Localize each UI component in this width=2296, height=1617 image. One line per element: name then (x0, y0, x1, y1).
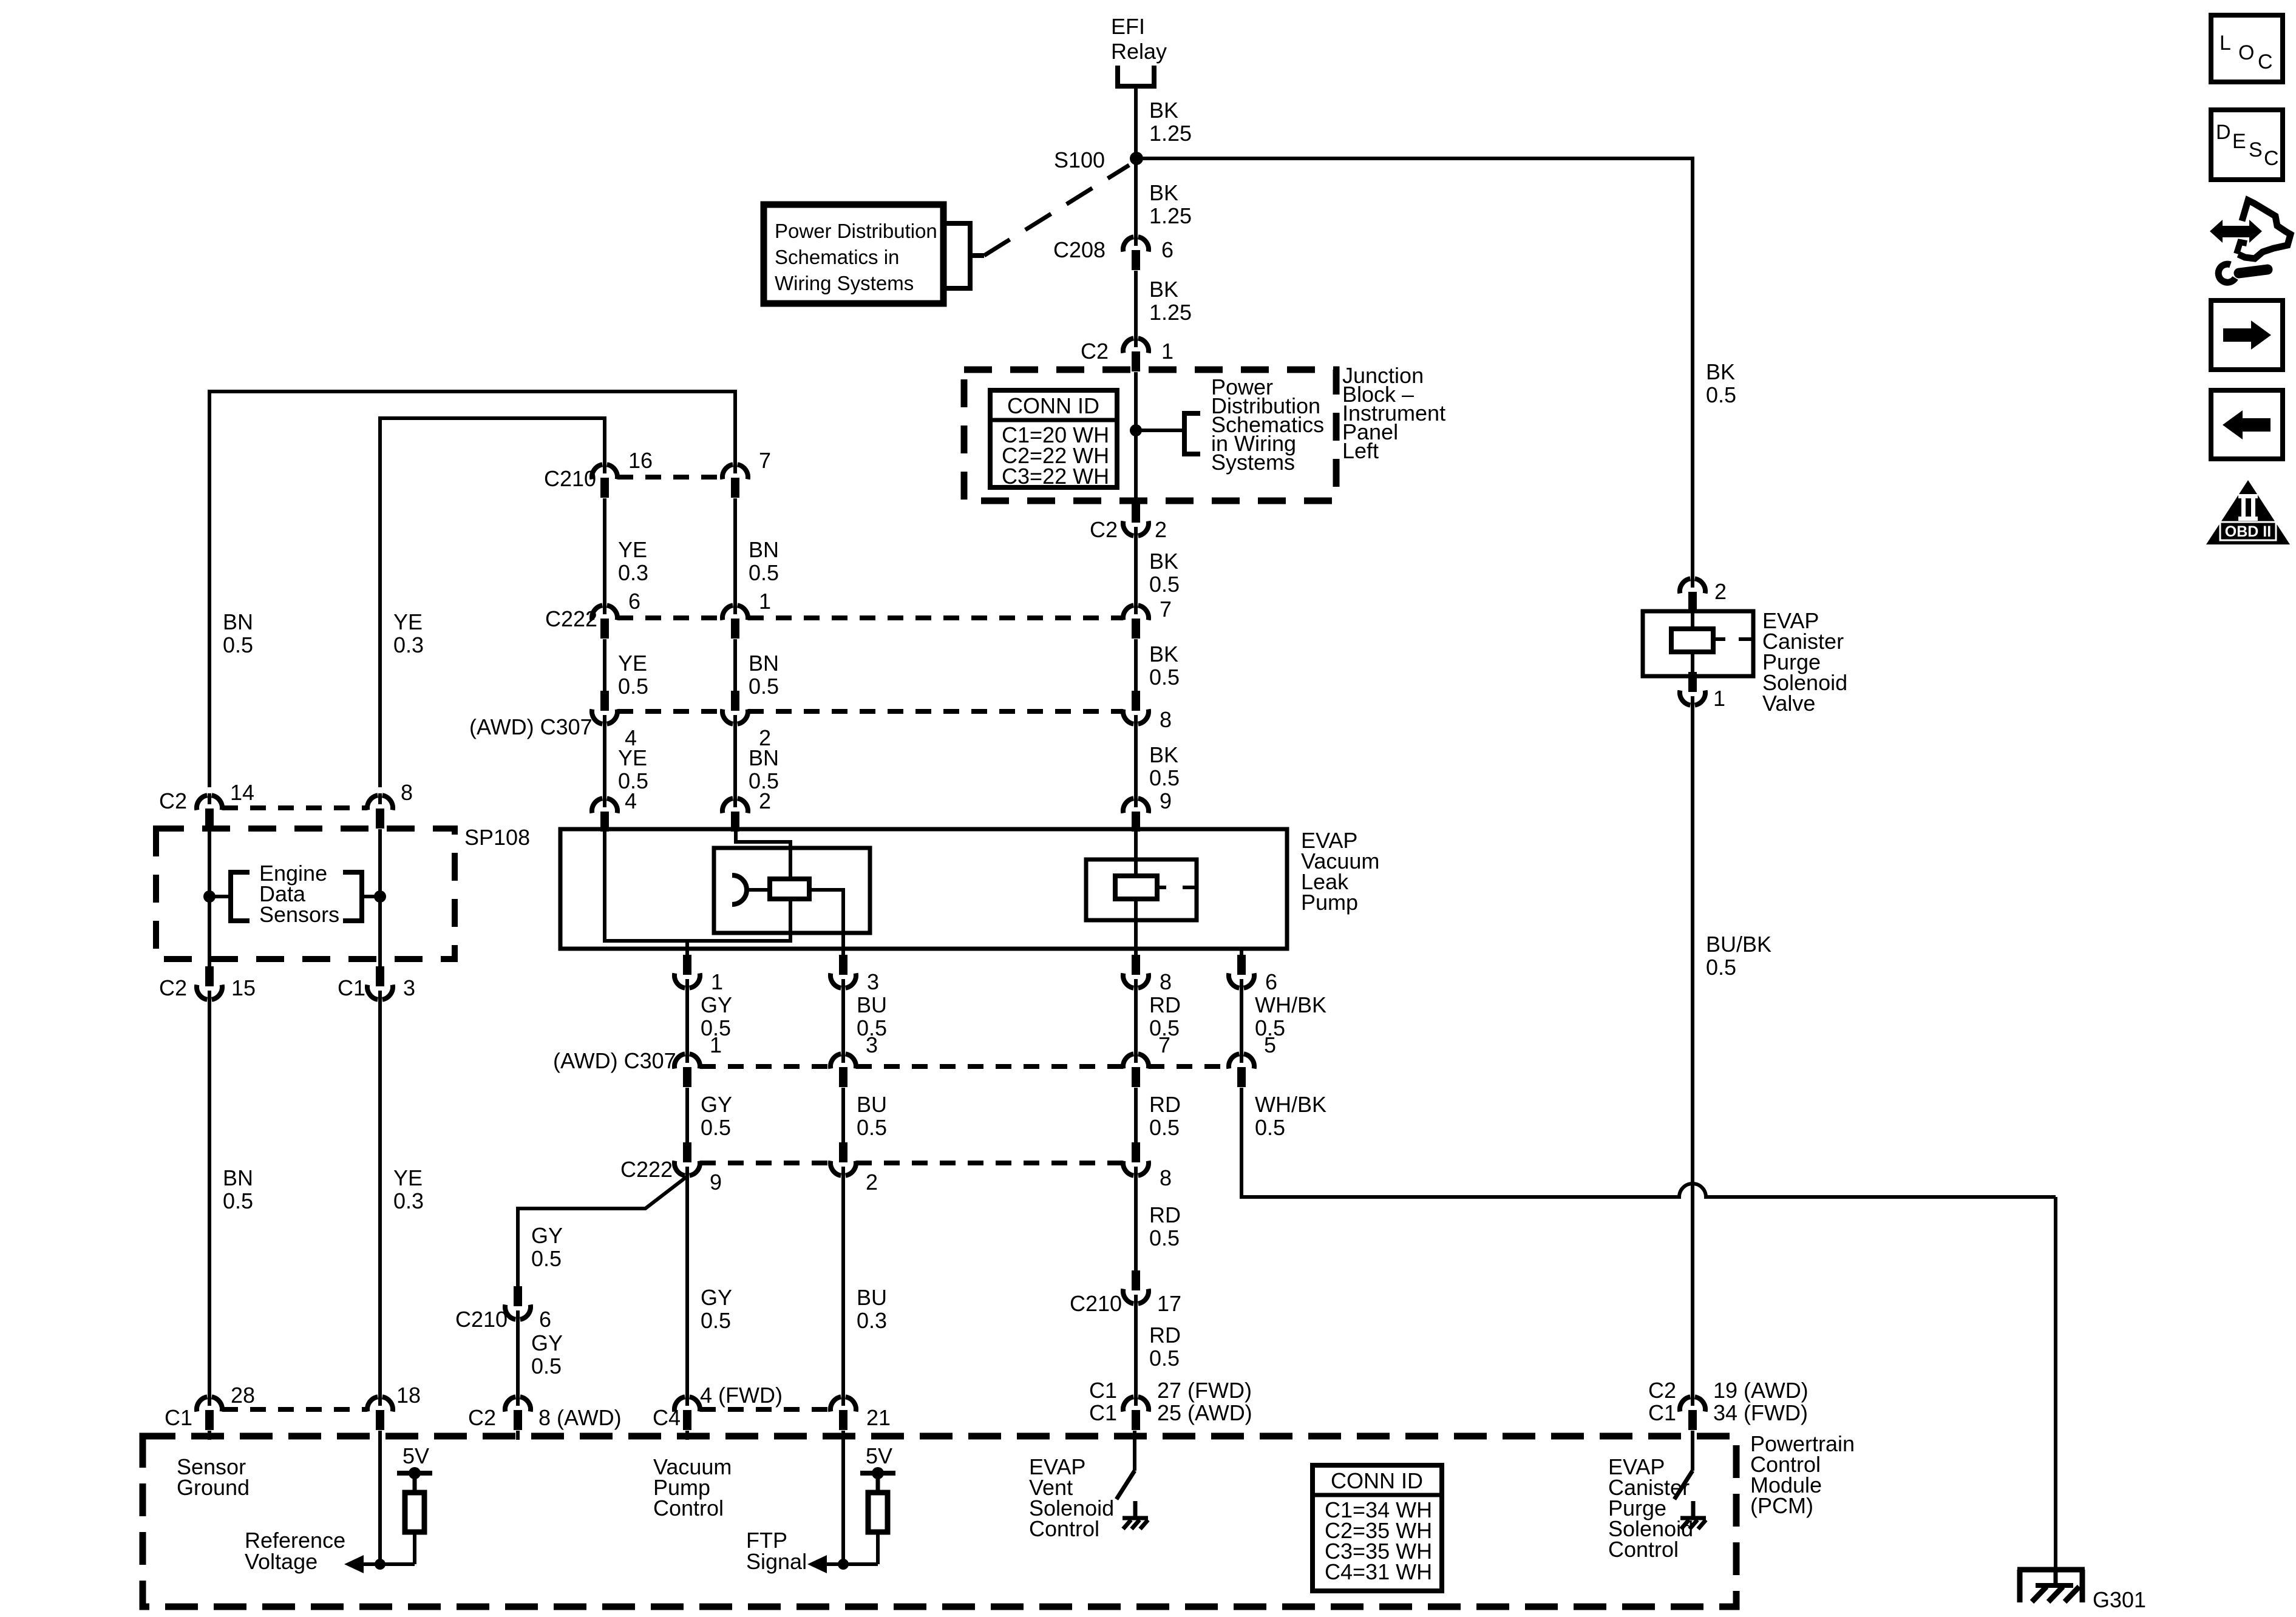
svg-text:1: 1 (1161, 339, 1173, 364)
connector C210 pin 17 (1123, 1270, 1149, 1306)
svg-text:5V: 5V (402, 1443, 429, 1468)
note Power Distribution Schematics in Wiring Systems (junction block) (1211, 375, 1324, 475)
svg-text:0.5: 0.5 (223, 632, 253, 657)
EFI Relay label (1111, 14, 1167, 64)
svg-text:6: 6 (628, 589, 640, 614)
wire YE loop (380, 418, 605, 787)
svg-text:0.5: 0.5 (701, 1115, 731, 1140)
wire label BK 0.5 (7-8) (1149, 642, 1180, 690)
purge solenoid internal ground (1680, 1501, 1706, 1529)
connector C4 pin 4 (FWD) (674, 1395, 700, 1430)
svg-text:D: D (2216, 121, 2231, 144)
wire pin8 through sensor box (378, 829, 382, 966)
wire label BK 0.5 (right) (1706, 359, 1736, 407)
svg-text:1.25: 1.25 (1149, 121, 1192, 146)
FTP arrow line (826, 1562, 878, 1566)
FTP Signal label (746, 1528, 807, 1574)
svg-text:0.3: 0.3 (393, 1188, 424, 1213)
wire BN loop (S100 area to left column) (209, 392, 735, 787)
svg-text:G301: G301 (2093, 1587, 2146, 1612)
wire label WH/BK 0.5 (C307-turn) (1255, 1092, 1326, 1140)
svg-text:C210: C210 (1070, 1291, 1122, 1316)
wire C2/2 to pin7 (1134, 536, 1138, 605)
PCM label (1750, 1431, 1855, 1518)
connector pin 8 (engine data) (367, 793, 393, 829)
repair action hand icon (2210, 200, 2291, 282)
connector C1 pin 28 (197, 1395, 222, 1430)
EVAP Vent Solenoid Control label (1029, 1454, 1114, 1541)
svg-text:6: 6 (1265, 969, 1277, 994)
svg-text:C2: C2 (1081, 339, 1109, 364)
svg-text:8: 8 (1160, 707, 1172, 732)
svg-text:C1: C1 (1648, 1400, 1676, 1425)
wire label RD 0.5 (C307-C222) (1149, 1092, 1181, 1140)
connector C210 pin 6 (505, 1286, 531, 1321)
junction block internal splice dot (1130, 424, 1142, 436)
svg-text:0.5: 0.5 (1706, 382, 1736, 407)
junction block bracket to note (1136, 411, 1200, 456)
Power Distribution Schematics note box (764, 205, 943, 303)
wire C307/2 to pump pin2 (733, 724, 737, 797)
connector pin 6 EVAP pump bottom (1229, 955, 1254, 990)
pump right heater box (1086, 859, 1197, 920)
pump bottom stub pin 8 (1134, 949, 1138, 960)
C307 row dashed link (617, 709, 722, 714)
svg-text:Systems: Systems (1211, 450, 1295, 475)
svg-text:15: 15 (231, 975, 256, 1000)
svg-text:BU: BU (857, 992, 887, 1017)
svg-text:WH/BK: WH/BK (1255, 992, 1326, 1017)
wire label BK 1.25 (S100-C208) (1149, 180, 1192, 228)
connector C222 pin 8 (1123, 1142, 1149, 1178)
svg-text:YE: YE (393, 1165, 423, 1190)
dashed pointer line to S100 (984, 165, 1129, 256)
EVAP Vacuum Leak Pump box (560, 829, 1287, 949)
connector pin 21 (830, 1395, 856, 1430)
svg-text:8: 8 (401, 780, 413, 805)
svg-text:C: C (2258, 50, 2273, 73)
svg-text:1: 1 (1713, 686, 1725, 711)
wire resistor to junction (reference) (413, 1532, 416, 1564)
connector C307 pin 3 (AWD lower) (830, 1052, 856, 1087)
svg-text:GY: GY (701, 1285, 732, 1310)
C210 row dashed link (617, 475, 722, 480)
svg-text:S: S (2249, 138, 2263, 161)
connector C222 pin 1 (722, 603, 748, 639)
svg-text:14: 14 (230, 780, 254, 805)
svg-text:6: 6 (539, 1307, 551, 1332)
svg-text:GY: GY (531, 1223, 563, 1248)
svg-text:Ground: Ground (177, 1475, 250, 1500)
wire label BN 0.5 (C210-C222) (749, 537, 779, 585)
splice dot left (engine data) (203, 890, 216, 903)
wire pin18 to reference junction (378, 1431, 382, 1564)
connector C2 pin 2 junction block exit (1123, 503, 1149, 538)
svg-text:BK: BK (1706, 359, 1735, 384)
svg-text:0.5: 0.5 (1255, 1115, 1285, 1140)
wire C307/5 to ground run (1240, 1088, 1243, 1199)
wire pin7 to pin8 (1134, 639, 1138, 692)
svg-text:BN: BN (223, 1165, 253, 1190)
ground run vertical to G301 (2054, 1197, 2057, 1571)
heater contact stubs (1157, 886, 1197, 889)
svg-text:C2: C2 (468, 1405, 496, 1430)
svg-text:Control: Control (1029, 1516, 1099, 1541)
FTP junction dot (838, 1559, 849, 1570)
svg-text:0.3: 0.3 (393, 632, 424, 657)
svg-text:16: 16 (628, 448, 653, 473)
svg-text:BK: BK (1149, 180, 1178, 205)
wire resistor to junction (FTP) (876, 1532, 880, 1564)
wire pump to C307 row (1134, 988, 1138, 1054)
connector C2 pin 15 (197, 966, 222, 1002)
wire label GY 0.5 (pump-C307) (701, 992, 732, 1040)
connector pin 9 EVAP pump (1123, 796, 1149, 832)
back arrow icon box (2211, 390, 2283, 459)
wire label BU 0.5 (C307-C222) (857, 1092, 887, 1140)
wire label BN 0.5 (lower left) (223, 1165, 253, 1213)
svg-text:YE: YE (618, 745, 647, 770)
C1/28-18 dashed link (222, 1407, 367, 1412)
connector C307 pin 2 (AWD) (722, 691, 748, 726)
svg-text:2: 2 (759, 788, 771, 813)
wire label BK 0.5 (C2/2 - 7) (1149, 549, 1180, 597)
svg-text:YE: YE (618, 537, 647, 562)
ground G301 symbol (2017, 1570, 2085, 1602)
connector C208 pin 6 (1123, 235, 1149, 270)
pump motor lead (747, 888, 770, 892)
reference voltage arrow line (362, 1562, 415, 1566)
wire label RD 0.5 (pump-C307) (1149, 992, 1181, 1040)
vent solenoid internal ground (1123, 1501, 1148, 1529)
svg-text:34 (FWD): 34 (FWD) (1713, 1400, 1808, 1425)
connector pin 2 purge valve (1680, 577, 1705, 612)
connector C2 pin 19 / C1 pin 34 (1680, 1395, 1705, 1430)
svg-text:5V: 5V (866, 1443, 892, 1468)
svg-text:O: O (2238, 41, 2254, 64)
wire label RD 0.5 (C210-PCM) (1149, 1323, 1181, 1371)
svg-text:GY: GY (701, 1092, 732, 1117)
svg-text:3: 3 (867, 969, 879, 994)
LOC icon box (2211, 15, 2283, 82)
svg-text:0.5: 0.5 (223, 1188, 253, 1213)
pump bottom stub pin 3 (841, 949, 845, 960)
wire label GY 0.5 (branch upper) (531, 1223, 563, 1271)
svg-text:2: 2 (1155, 517, 1167, 542)
svg-text:GY: GY (531, 1331, 563, 1355)
wire C307/4 to pump pin4 (603, 724, 606, 797)
svg-text:7: 7 (1158, 1032, 1170, 1057)
wire label YE 0.3 (lower left) (393, 1165, 424, 1213)
connector C2 pin 8 (AWD) (505, 1395, 531, 1430)
svg-text:SP108: SP108 (464, 825, 530, 850)
svg-text:2: 2 (866, 1170, 878, 1195)
connector pin 1 purge valve (1680, 672, 1705, 707)
svg-text:CONN ID: CONN ID (1331, 1468, 1423, 1493)
wire pin9 through heater (1134, 829, 1138, 878)
svg-text:C1: C1 (1089, 1378, 1117, 1403)
svg-text:9: 9 (710, 1170, 722, 1195)
wire purge valve to PCM pin 19/34 (1691, 705, 1694, 1397)
forward arrow icon box (2211, 300, 2283, 370)
wire C210/7 to C222/1 (733, 498, 737, 605)
wire C222/6 to C307/4 (603, 639, 606, 691)
wire pin21 to FTP junction (841, 1431, 845, 1564)
wire label BU 0.3 (857, 1285, 887, 1333)
connector pin 3 EVAP pump bottom (830, 955, 856, 990)
5V supply bar (reference) (397, 1467, 432, 1493)
svg-text:GY: GY (701, 992, 732, 1017)
wire C210/6 to C2/8 pin (516, 1320, 520, 1397)
wire C222/8 to C210/17 (1134, 1176, 1138, 1270)
svg-text:C3=22 WH: C3=22 WH (1002, 464, 1109, 489)
Powertrain Control Module dashed box (143, 1436, 1736, 1607)
connector pin 2 EVAP pump (722, 796, 748, 832)
svg-text:19 (AWD): 19 (AWD) (1713, 1378, 1809, 1403)
connector C307 pin 8 (center) (1123, 691, 1149, 726)
wire label BU 0.5 (pump-C307) (857, 992, 887, 1040)
C307 lower dashed link 3-7 (856, 1064, 1123, 1069)
svg-text:1.25: 1.25 (1149, 203, 1192, 228)
svg-text:0.5: 0.5 (749, 674, 779, 699)
svg-text:(AWD) C307: (AWD) C307 (469, 714, 593, 739)
wire pump to C307 row (1240, 988, 1243, 1054)
splice dot right (engine data) (374, 890, 386, 903)
svg-text:C1: C1 (1089, 1400, 1117, 1425)
svg-text:WH/BK: WH/BK (1255, 1092, 1326, 1117)
connector C307 pin 5 (AWD lower) (1229, 1052, 1254, 1087)
pump motor semicircle (732, 875, 747, 904)
connector C1 pin 3 (367, 966, 393, 1002)
svg-text:4 (FWD): 4 (FWD) (700, 1383, 783, 1408)
svg-text:C4=31 WH: C4=31 WH (1325, 1559, 1432, 1584)
wire label BN 0.5 (upper left) (223, 609, 253, 657)
DESC icon box (2211, 110, 2283, 180)
Engine Data Sensors label (259, 861, 339, 927)
svg-text:5: 5 (1264, 1032, 1276, 1057)
splice S100 dot (1130, 152, 1143, 165)
wire label GY 0.5 (FWD branch) (701, 1285, 732, 1333)
svg-text:RD: RD (1149, 1323, 1181, 1347)
svg-text:C210: C210 (544, 466, 596, 491)
reference voltage arrowhead (344, 1555, 364, 1573)
svg-text:28: 28 (231, 1383, 255, 1408)
svg-text:EFI: EFI (1111, 14, 1145, 39)
pump pin1 stub (685, 941, 689, 951)
C4/4-21 dashed link (700, 1407, 830, 1412)
svg-text:1.25: 1.25 (1149, 300, 1192, 325)
svg-text:BK: BK (1149, 642, 1178, 666)
svg-text:0.5: 0.5 (1149, 1346, 1180, 1371)
connector C222 pin 9 (674, 1142, 700, 1178)
wire pin8 to pin9 (1134, 724, 1138, 797)
C307 row dashed link to center (748, 709, 1123, 714)
svg-text:0.5: 0.5 (531, 1354, 562, 1378)
wire purge valve pin2 to coil (1691, 612, 1694, 626)
wire label BU/BK 0.5 (1706, 932, 1771, 980)
svg-text:(PCM): (PCM) (1750, 1493, 1813, 1518)
EVAP Canister Purge Solenoid Valve box (1643, 611, 1753, 676)
EVAP vent solenoid driver switch (1116, 1431, 1135, 1499)
C222 lower dashed link 9-2 (700, 1161, 830, 1165)
svg-text:1: 1 (711, 969, 723, 994)
wire pump to C307 row (685, 988, 689, 1054)
svg-text:Sensors: Sensors (259, 902, 339, 927)
svg-text:RD: RD (1149, 1202, 1181, 1227)
svg-text:27 (FWD): 27 (FWD) (1157, 1378, 1252, 1403)
EVAP Canister Purge Solenoid Control label (1608, 1454, 1693, 1562)
svg-text:17: 17 (1157, 1291, 1181, 1316)
svg-text:0.5: 0.5 (1149, 765, 1180, 790)
wire label BK 0.5 (8-9) (1149, 742, 1180, 790)
svg-text:0.5: 0.5 (531, 1246, 562, 1271)
svg-text:0.5: 0.5 (857, 1115, 887, 1140)
svg-text:Wiring Systems: Wiring Systems (775, 272, 914, 294)
wire label BN 0.5 (C222-C307) (749, 651, 779, 699)
svg-text:C2: C2 (159, 975, 187, 1000)
wire C222/1 to C307/2 (733, 639, 737, 691)
svg-text:C: C (2264, 147, 2279, 170)
svg-text:Pump: Pump (1301, 890, 1358, 915)
wire EFI relay to C208 (1134, 86, 1138, 237)
svg-text:C1: C1 (165, 1405, 192, 1430)
EFI relay bracket symbol (1118, 66, 1154, 86)
wire through junction block (1134, 372, 1138, 503)
svg-text:C1: C1 (338, 975, 365, 1000)
wire C2/14 through sensor box (208, 829, 211, 966)
pump resistor (left) (770, 879, 809, 899)
svg-text:C2: C2 (1090, 517, 1118, 542)
pump resistor lead to pin 3 (809, 890, 843, 949)
label Junction Block - Instrument Panel Left (1342, 363, 1445, 463)
svg-text:0.5: 0.5 (1149, 665, 1180, 690)
wire C2/15 to C1/28 (208, 1000, 211, 1397)
svg-text:RD: RD (1149, 1092, 1181, 1117)
wire S100 to purge valve pin2 (1136, 158, 1693, 577)
pump heater resistor (1115, 876, 1157, 899)
ground run horizontal with hop (1241, 1184, 2056, 1197)
connector C307 pin 7 (AWD lower) (1123, 1052, 1149, 1087)
svg-text:Power Distribution: Power Distribution (775, 220, 937, 242)
svg-text:BN: BN (223, 609, 253, 634)
svg-text:C4: C4 (653, 1405, 681, 1430)
reference resistor (405, 1493, 424, 1532)
pin C4/4 stub (685, 1431, 689, 1440)
svg-text:Valve: Valve (1762, 691, 1815, 716)
wire label RD 0.5 (C222-C210) (1149, 1202, 1181, 1250)
EVAP purge solenoid driver switch (1674, 1431, 1693, 1499)
svg-text:YE: YE (393, 609, 423, 634)
svg-text:OBD II: OBD II (2225, 523, 2271, 540)
svg-text:C2: C2 (1648, 1378, 1676, 1403)
C222 row dashed link to center (748, 615, 1123, 620)
wire label GY 0.5 (branch lower) (531, 1331, 563, 1378)
wire label YE 0.5 (C222-C307) (618, 651, 648, 699)
note box bracket (943, 221, 984, 291)
svg-text:L: L (2220, 32, 2231, 55)
svg-text:2: 2 (1714, 579, 1727, 604)
C307 lower dashed link 1-3 (700, 1064, 830, 1069)
pump internal wire loop pins 4/2 (605, 829, 790, 941)
svg-text:BU/BK: BU/BK (1706, 932, 1771, 957)
svg-text:E: E (2232, 130, 2246, 153)
connector C222 pin 7 (center) (1123, 603, 1149, 639)
svg-text:BK: BK (1149, 742, 1178, 767)
svg-text:Schematics in: Schematics in (775, 246, 899, 268)
FTP arrowhead (807, 1555, 827, 1573)
wire label WH/BK 0.5 (pump-C307) (1255, 992, 1326, 1040)
svg-text:6: 6 (1161, 237, 1173, 262)
svg-text:9: 9 (1160, 788, 1172, 813)
svg-text:RD: RD (1149, 992, 1181, 1017)
svg-text:YE: YE (618, 651, 647, 676)
wire C307/3 to C222/2 (841, 1088, 845, 1142)
EVAP Canister Purge Solenoid Valve label (1762, 608, 1847, 716)
svg-text:0.5: 0.5 (701, 1308, 731, 1333)
pump bottom stub pin 6 (1240, 949, 1243, 960)
pin C2/8 stub (516, 1431, 520, 1440)
purge valve contact stubs (1713, 637, 1753, 641)
svg-text:0.5: 0.5 (1706, 955, 1736, 980)
svg-text:BN: BN (749, 537, 779, 562)
svg-text:0.5: 0.5 (618, 674, 648, 699)
wire pump to C307 row (841, 988, 845, 1054)
svg-text:Left: Left (1342, 438, 1379, 463)
svg-text:3: 3 (866, 1032, 878, 1057)
svg-text:BU: BU (857, 1092, 887, 1117)
svg-text:CONN ID: CONN ID (1007, 393, 1099, 418)
connector C222 pin 6 (592, 603, 617, 639)
C307 lower dashed link 7-5 (1149, 1064, 1229, 1069)
connector pin 8 EVAP pump bottom (1123, 955, 1149, 990)
wire C208 to C2 pin1 (1134, 271, 1138, 338)
wire C1/3 to pin18 (378, 1000, 382, 1397)
connector C1 pin 27/25 (1123, 1395, 1149, 1430)
svg-text:4: 4 (625, 788, 637, 813)
purge valve coil (1671, 629, 1713, 652)
CONN ID table (junction block) (990, 390, 1117, 489)
pump motor box (714, 848, 870, 933)
svg-text:C208: C208 (1053, 237, 1106, 262)
svg-text:BK: BK (1149, 277, 1178, 302)
connector C210 pin 7 (722, 463, 748, 498)
svg-text:0.5: 0.5 (749, 560, 779, 585)
connector C2 pin 14 (197, 793, 222, 829)
svg-text:0.5: 0.5 (1149, 1225, 1180, 1250)
FTP resistor (868, 1493, 888, 1532)
svg-text:8: 8 (1160, 1165, 1172, 1190)
C222 row dashed link (617, 615, 722, 620)
wire label YE 0.5 (C307-pump) (618, 745, 648, 793)
svg-text:0.3: 0.3 (618, 560, 648, 585)
svg-text:Voltage: Voltage (245, 1549, 318, 1574)
Reference Voltage label (245, 1528, 345, 1574)
connector pin 1 EVAP pump bottom (674, 955, 700, 990)
wire coil to purge valve pin1 (1691, 654, 1694, 676)
svg-text:C222: C222 (545, 606, 597, 631)
connector C222 pin 2 (830, 1142, 856, 1178)
wire C210/16 to C222/6 (603, 498, 606, 605)
svg-text:Relay: Relay (1111, 39, 1167, 64)
svg-text:(AWD) C307: (AWD) C307 (553, 1048, 676, 1073)
reference voltage junction dot (375, 1559, 385, 1570)
wire C307/1 to C222/9 (685, 1088, 689, 1142)
svg-text:0.3: 0.3 (857, 1308, 887, 1333)
svg-text:1: 1 (759, 589, 771, 614)
svg-text:1: 1 (710, 1032, 722, 1057)
connector pin 18 (367, 1395, 393, 1430)
svg-text:BU: BU (857, 1285, 887, 1310)
